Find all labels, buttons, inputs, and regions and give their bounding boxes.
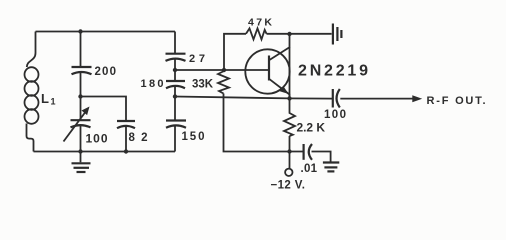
svg-text:100: 100 [86,132,108,146]
wire collector-emitter vertical tangent [289,47,291,98]
wire 200/100 branch upper [80,32,82,67]
svg-text:33K: 33K [192,79,214,91]
node dot 82 bottom [124,149,128,153]
output arrowhead [412,95,422,102]
transistor emitter [269,79,290,99]
transistor base bar [268,56,270,81]
wire 47K left leg [224,34,246,70]
svg-text:2.2 K: 2.2 K [297,121,326,135]
capacitor C 100 output [332,89,334,108]
wire output line [340,98,412,100]
svg-text:200: 200 [95,66,117,78]
wire 82 lower lead [125,126,127,152]
wire coil bottom lead with jog [27,124,34,152]
transistor Q1 circle [245,49,289,93]
capacitor C 82 [117,120,135,122]
capacitor C 100 variable plates [71,119,91,121]
wire left lead into coil [27,32,36,68]
node dot branch / 82 connector [78,94,82,98]
inductor L1 [25,67,39,124]
node dot emitter junction [287,96,291,100]
wire .01 to ground [312,152,331,162]
svg-text:180: 180 [141,78,164,90]
node dot rail junction [287,149,291,153]
capacitor C 27 [166,53,186,55]
wire 2.2K to rail [289,136,291,152]
ground bottom right [323,161,339,163]
svg-text:100: 100 [324,109,346,121]
wire bottom tank horizontal [34,151,176,153]
wire middle branch upper [174,32,176,54]
wire base line [175,69,269,71]
capacitor C 150 [166,119,186,121]
terminal -12V circle [285,169,292,176]
svg-text:47K: 47K [248,16,272,28]
ground under tank [80,152,82,163]
wire top tank horizontal [36,31,176,33]
resistor 2.2K [284,98,295,136]
node dot 180/150 emitter tap [173,94,177,98]
wire 150 lower lead [174,126,176,152]
wire 47K right to junction and ground [267,33,332,35]
svg-text:.01: .01 [301,163,318,175]
svg-text:1: 1 [51,97,56,107]
node dot 47K/collector [287,32,291,36]
capacitor C 180 [166,80,185,82]
svg-text:150: 150 [182,131,205,143]
svg-text:R-F OUT.: R-F OUT. [427,95,486,107]
svg-text:L: L [41,91,49,106]
resistor 47K [246,28,267,39]
wire 180 upper lead [174,70,176,81]
node dot bottom wire / ground [78,149,82,153]
wire terminal lead [289,152,291,169]
wire 180 lower lead [174,86,176,97]
wire 27 to base node [174,59,176,70]
transistor collector [269,34,290,60]
capacitor C 200 [72,66,92,68]
wire 150 upper lead [174,97,176,121]
ground right-pointing top [332,24,334,45]
wire connector to 82 [81,97,127,121]
variable capacitor arrow [64,111,87,142]
wire 33K leg down to rail [224,94,304,152]
wire branch lower [80,125,82,151]
wire branch mid [80,72,82,119]
wire emitter line [175,97,332,99]
node dot 47K leg base [222,68,226,72]
node dot top of branch [78,29,82,33]
transistor emitter arrow [280,86,289,94]
capacitor C .01 [303,144,305,160]
node dot 27/180 base tap [173,68,177,72]
resistor 33K [218,71,229,94]
svg-text:−12 V.: −12 V. [271,180,306,192]
